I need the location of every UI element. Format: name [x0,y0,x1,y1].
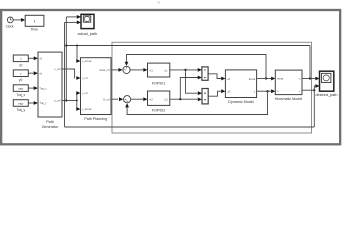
riser wire A [64,22,66,127]
wire v to Kinematic Model [257,90,271,92]
controller FOPID2 [148,91,170,105]
svg-text:u2: u2 [227,90,231,94]
svg-text:y_ref: y_ref [82,92,88,95]
svg-text:y_ref: y_ref [54,99,61,103]
svg-text:Kinematic Model: Kinematic Model [275,97,302,101]
svg-text:u2: u2 [164,98,168,102]
junction y_actual branch [313,89,315,91]
subsystem Kinematic Model [275,70,302,95]
wire y out of Kinematic Model [302,89,314,91]
v feedback wire [127,91,267,114]
wire D_ref to sum2 [111,98,118,100]
theta feedback wire [127,55,267,79]
svg-text:theta: theta [249,77,256,81]
wire u2 to mux2 [170,98,198,100]
x_actual feedback top line [66,45,310,47]
svg-text:Path: Path [46,120,54,124]
svg-text:v: v [158,0,160,4]
sum block sum1 [123,66,130,73]
wire u1 to mux1 [170,69,198,71]
svg-text:x_ref: x_ref [54,67,61,71]
svg-text:trajy: trajy [18,101,24,105]
svg-text:Traj_y: Traj_y [40,102,48,105]
svg-text:u1: u1 [227,77,231,81]
x_actual branch riser [309,46,311,79]
svg-text:x0: x0 [19,63,23,67]
subsystem Dynamic Model [225,70,256,98]
wire Traj_x to Path Generator [28,87,33,89]
wire riser to scope in2 [65,21,77,23]
wire u2 branch to mux1 [180,78,197,100]
constant Traj_x [13,85,28,92]
svg-text:desired_path: desired_path [316,93,338,97]
constant Traj_y [13,100,28,107]
wire riser to scope in1 [66,16,77,18]
wire Clock to Time [13,19,21,21]
junction u2 branch [179,98,181,100]
svg-text:Traj_y: Traj_y [16,108,25,112]
wire Traj_y to Path Generator [28,102,33,104]
junction v branch [266,90,268,92]
junction u1 branch [184,69,186,71]
svg-text:actual_path: actual_path [77,32,97,36]
subsystem Path Planning [81,58,112,115]
svg-text:Dynamic Model: Dynamic Model [228,100,254,104]
svg-text:Clock: Clock [6,24,14,28]
y_actual branch dropper [313,90,315,127]
to-workspace block Time [25,15,44,26]
svg-text:D_ref: D_ref [103,97,110,101]
controller subsystem box [112,42,312,133]
svg-text:Time: Time [30,27,38,31]
svg-text:u1: u1 [164,68,168,72]
sum block sum2 [124,96,131,103]
svg-text:FOPID2: FOPID2 [152,108,165,112]
svg-text:x_actual: x_actual [82,60,92,63]
junction y_ref split [76,100,78,102]
clock source Clock [7,17,13,23]
junction riser B y_ref [65,99,67,101]
constant x0 [13,55,28,62]
svg-text:e1: e1 [150,68,154,72]
constant y0 [13,70,28,77]
svg-text:x_ref: x_ref [82,77,88,80]
svg-text:Path Planning: Path Planning [84,117,107,121]
svg-text:trajx: trajx [18,86,24,90]
svg-text:FOPID1: FOPID1 [152,81,165,85]
scope desired_path [320,71,334,91]
svg-text:y0: y0 [19,78,23,82]
wire x0 to Path Generator [28,57,33,59]
scope actual_path [81,14,94,28]
svg-text:e2: e2 [150,98,154,102]
y_actual feedback bottom line [65,126,315,128]
riser wire B [65,17,67,101]
svg-text:theta: theta [277,77,284,81]
controller FOPID1 [148,63,170,77]
wire y to desired_path scope [313,86,316,90]
wire y_ref out [62,100,77,102]
junction x_actual branch [309,77,311,79]
svg-text:theta_ref: theta_ref [99,68,110,72]
wire mux2 to Dynamic Model [208,91,221,96]
svg-text:y_actual: y_actual [82,108,92,111]
junction theta branch [265,77,267,79]
wire x to desired_path scope [302,78,315,80]
wire sum2 to FOPID2 [131,98,143,100]
wire sum1 to FOPID1 [130,69,143,71]
wire y_ref to Path Planning [76,93,78,101]
svg-text:Generator: Generator [42,125,59,129]
wire theta to Kinematic Model [257,78,271,80]
wire u1 branch to mux2 [186,70,198,93]
junction riser B top line [65,44,67,46]
wire mux1 to Dynamic Model [208,74,221,79]
model window border [1,10,340,144]
wire y0 to Path Generator [28,72,33,74]
wire theta_ref to sum1 [111,69,118,71]
svg-text:Traj_x: Traj_x [40,87,48,90]
subsystem Path Generator [38,52,62,117]
wire to Path Planning x_actual port [76,46,78,62]
wire x_ref to Path Planning [62,69,75,78]
svg-text:Traj_x: Traj_x [16,93,25,97]
svg-text:1: 1 [33,19,35,23]
junction top line to x_actual port [76,45,78,47]
mux mux1 [202,67,208,80]
wire to Path Planning y_actual port [76,101,78,110]
mux mux2 [202,89,208,104]
